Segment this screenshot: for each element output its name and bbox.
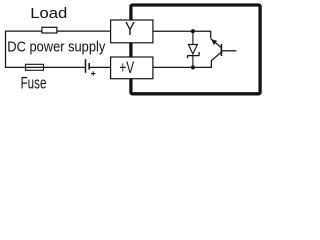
node junction bottom (zener cathode) [191,65,195,69]
zener diode ZD1 [187,31,199,67]
wire load to terminal Y [57,30,111,32]
transistor Q1 (output transistor) [211,31,237,68]
battery B1 short plate [88,63,90,70]
svg-text:Fuse: Fuse [21,75,47,93]
wire battery to terminal +V [89,66,110,68]
wire bottom-left to fuse and battery [6,66,86,68]
PLC output unit box U1 [131,5,260,94]
svg-text:+V: +V [119,59,134,77]
fuse F1 (box on wire) [26,64,44,70]
node junction top (zener anode) [191,29,195,33]
terminal Y box [111,20,153,43]
wire left vertical (supply loop left) [5,31,7,69]
wire terminal Y to transistor [153,30,211,32]
wire top-left (supply loop top) [6,30,42,32]
wire terminal +V to transistor [153,66,212,68]
battery plus sign [91,71,95,75]
svg-text:Load: Load [30,5,67,22]
load L1 (box symbol) [42,27,57,33]
terminal +V box [111,57,153,79]
svg-text:Y: Y [125,18,135,39]
svg-text:DC power supply: DC power supply [7,38,105,55]
battery B1 long plate [85,59,87,73]
